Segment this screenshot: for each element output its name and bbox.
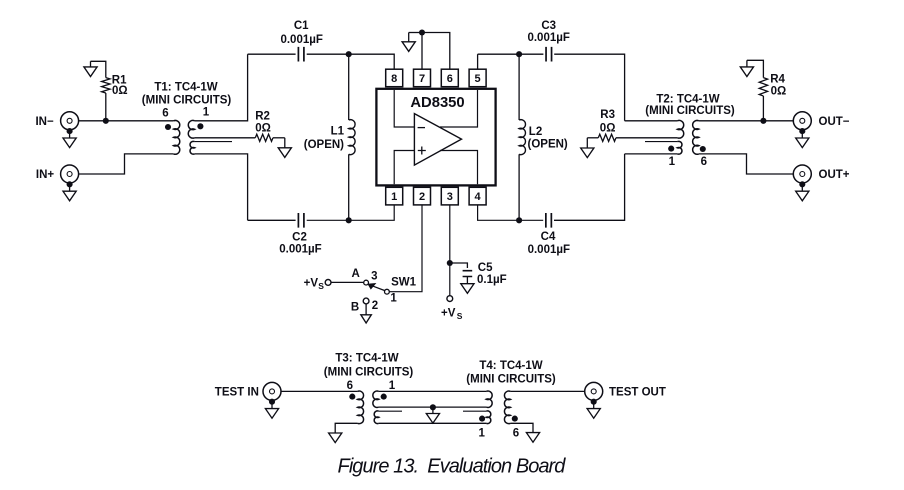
node IN+ input connector xyxy=(61,165,79,183)
node junction pin7/pin6 xyxy=(419,29,425,35)
svg-text:B: B xyxy=(351,301,359,313)
svg-text:1: 1 xyxy=(390,292,397,304)
wire +Vs to SW1 contact 3 xyxy=(331,281,364,283)
wire T3 tap2 stub xyxy=(379,410,402,412)
resistor R1 0ohm xyxy=(105,93,107,121)
svg-text:S: S xyxy=(318,281,324,291)
node OUT- connector xyxy=(793,112,811,130)
node +Vs switch terminal xyxy=(325,280,331,286)
transformer T4 secondary winding pin6 xyxy=(504,391,510,424)
node IN- input connector xyxy=(61,112,79,130)
svg-text:3: 3 xyxy=(447,191,453,203)
svg-text:(OPEN): (OPEN) xyxy=(528,139,568,151)
svg-text:6: 6 xyxy=(347,380,353,392)
switch SW1 pole 1 and arm xyxy=(385,289,390,294)
ground at R4 xyxy=(746,60,748,67)
resistor R2 0ohm xyxy=(255,134,273,141)
ground at R1 xyxy=(90,61,92,67)
node junction C4/L2 xyxy=(516,217,522,223)
ground at R2 xyxy=(284,138,286,148)
wire pin2 down to SW1 xyxy=(389,205,422,292)
switch SW1 contact 2 (B) xyxy=(363,298,369,304)
resistor R3 0ohm xyxy=(598,134,616,141)
svg-text:+V: +V xyxy=(304,277,319,289)
wire T4 tap2 stub xyxy=(463,410,486,412)
svg-text:T1: TC4-1W: T1: TC4-1W xyxy=(154,82,217,94)
capacitor C4 0.001uF xyxy=(478,205,544,220)
op-amp U1 internal triangle xyxy=(414,114,461,166)
svg-text:4: 4 xyxy=(475,191,482,203)
node TEST IN connector xyxy=(263,382,281,400)
wire T3 pin6 bottom to ground xyxy=(335,423,357,433)
svg-text:L2: L2 xyxy=(529,126,542,138)
svg-text:(MINI CIRCUITS): (MINI CIRCUITS) xyxy=(324,367,414,379)
pin 3 box xyxy=(441,187,458,205)
transformer T3 primary winding pin6 xyxy=(358,391,364,424)
wire T1 sec bottom to C2 xyxy=(195,154,248,220)
pin 2 box xyxy=(414,187,431,205)
ground at SW1 B xyxy=(365,304,367,315)
svg-text:S: S xyxy=(457,311,463,321)
ground at C5 xyxy=(461,284,474,294)
node +Vs supply terminal xyxy=(447,296,453,302)
node junction C3/L2 xyxy=(516,51,522,57)
svg-text:6: 6 xyxy=(701,156,707,168)
wire T3/T4 center tap link xyxy=(379,406,487,408)
svg-text:5: 5 xyxy=(475,73,481,85)
svg-text:+V: +V xyxy=(441,308,456,320)
wire T1 sec tap to R2 xyxy=(195,137,256,139)
op-amp output lower to pin4 xyxy=(440,151,478,185)
node junction pin3/C5 xyxy=(447,260,453,266)
wire IN+ to T1 pin6 bottom xyxy=(78,154,173,174)
svg-text:R2: R2 xyxy=(255,110,270,122)
wire pin7 up to ground net xyxy=(421,33,423,70)
svg-text:0.001µF: 0.001µF xyxy=(527,32,569,44)
svg-text:0.1µF: 0.1µF xyxy=(477,274,507,286)
transformer T2 secondary winding pin6 xyxy=(693,120,699,154)
capacitor C3 0.001uF xyxy=(478,53,544,55)
svg-text:1: 1 xyxy=(669,156,676,168)
pin 5 box xyxy=(469,69,486,87)
pin 1 box xyxy=(386,187,403,205)
svg-text:Figure 13. Evaluation Board: Figure 13. Evaluation Board xyxy=(338,455,567,477)
pin 7 box xyxy=(414,69,431,87)
svg-text:R4: R4 xyxy=(770,73,785,85)
inductor L2 (OPEN) xyxy=(518,54,520,120)
svg-text:IN−: IN− xyxy=(35,116,54,128)
op-amp minus input xyxy=(394,90,414,127)
svg-text:0Ω: 0Ω xyxy=(255,123,271,135)
wire T2 tap to R3 xyxy=(616,137,677,139)
resistor R4 0ohm xyxy=(762,96,764,121)
svg-text:C1: C1 xyxy=(294,20,309,32)
svg-text:(MINI CIRCUITS): (MINI CIRCUITS) xyxy=(645,105,735,117)
op-amp U1 AD8350 body xyxy=(376,89,495,186)
svg-text:C5: C5 xyxy=(478,262,493,274)
svg-text:3: 3 xyxy=(371,271,377,283)
inductor L1 (OPEN) xyxy=(348,54,350,120)
svg-text:2: 2 xyxy=(372,300,378,312)
svg-text:OUT−: OUT− xyxy=(819,116,850,128)
svg-text:1: 1 xyxy=(391,191,397,203)
transformer T4 primary winding pin1 xyxy=(486,391,492,407)
wire IN- to T1 pin6 top xyxy=(78,120,173,122)
wire C3 corner to T2 pin1 top xyxy=(625,120,678,122)
wire T2 pin6 top to OUT- xyxy=(699,120,794,122)
svg-text:0Ω: 0Ω xyxy=(600,123,616,135)
svg-text:C3: C3 xyxy=(541,20,556,32)
wire T3/T4 top link xyxy=(379,390,487,392)
svg-text:SW1: SW1 xyxy=(391,276,417,288)
wire TEST IN to T3 pin6 xyxy=(281,390,358,392)
node junction center tap ground xyxy=(430,404,436,410)
svg-text:0Ω: 0Ω xyxy=(112,85,128,97)
node junction IN-/R1 xyxy=(103,118,109,124)
transformer T2 primary winding pin1 xyxy=(677,120,683,138)
wire T2 tap2 stub xyxy=(645,141,677,143)
svg-text:2: 2 xyxy=(419,191,425,203)
ground at R3 xyxy=(586,138,588,148)
wire pin6 up to ground net xyxy=(422,33,450,70)
svg-text:T3: TC4-1W: T3: TC4-1W xyxy=(335,353,398,365)
transformer T1 primary winding pin6 xyxy=(174,120,180,154)
transformer T3 secondary winding pin1 xyxy=(373,391,379,407)
svg-text:0Ω: 0Ω xyxy=(771,85,787,97)
svg-text:6: 6 xyxy=(162,108,168,120)
svg-text:(OPEN): (OPEN) xyxy=(304,139,344,151)
svg-text:0.001µF: 0.001µF xyxy=(280,34,322,46)
node TEST OUT connector xyxy=(585,382,603,400)
wire T4 pin6 top to TEST OUT xyxy=(510,390,585,392)
svg-text:R3: R3 xyxy=(600,109,615,121)
transformer T1 secondary winding pin1 xyxy=(188,120,194,138)
pin 8 box xyxy=(386,69,403,87)
svg-text:1: 1 xyxy=(389,380,396,392)
ground at T3 pin6 xyxy=(329,433,342,443)
wire T4 pin6 bottom to ground xyxy=(510,423,533,432)
wire pin5 up to C3 rail xyxy=(477,54,479,69)
svg-text:(MINI CIRCUITS): (MINI CIRCUITS) xyxy=(466,374,556,386)
capacitor C2 0.001uF xyxy=(248,219,296,221)
op-amp plus input xyxy=(394,151,414,185)
wire T1 sec top to C1 xyxy=(195,54,248,121)
wire T1 sec tap2 stub xyxy=(195,141,232,143)
wire pin3 down to +Vs xyxy=(449,205,451,296)
svg-text:T4: TC4-1W: T4: TC4-1W xyxy=(479,360,542,372)
ground at T4 pin6 xyxy=(526,433,539,443)
svg-text:IN+: IN+ xyxy=(36,169,55,181)
node junction C1/L1 xyxy=(346,51,352,57)
node OUT+ connector xyxy=(793,165,811,183)
svg-text:6: 6 xyxy=(447,73,453,85)
svg-text:T2: TC4-1W: T2: TC4-1W xyxy=(656,94,719,106)
wire T2 pin6 bottom to OUT+ xyxy=(699,154,794,174)
svg-text:L1: L1 xyxy=(331,125,345,137)
capacitor C1 0.001uF xyxy=(248,53,296,55)
pin 6 box xyxy=(441,69,458,87)
capacitor C5 0.1uF xyxy=(450,263,468,268)
svg-text:0.001µF: 0.001µF xyxy=(279,243,321,255)
svg-text:8: 8 xyxy=(391,73,397,85)
svg-text:TEST IN: TEST IN xyxy=(215,387,259,399)
node junction C2/L1 xyxy=(346,217,352,223)
wire T2 pin1 bottom to C4 xyxy=(625,153,678,155)
svg-text:OUT+: OUT+ xyxy=(819,169,850,181)
ground at pin7 xyxy=(409,32,422,34)
svg-text:1: 1 xyxy=(478,428,485,440)
node junction R4/OUT- xyxy=(760,118,766,124)
svg-text:6: 6 xyxy=(513,428,519,440)
svg-text:C4: C4 xyxy=(541,231,556,243)
svg-text:(MINI CIRCUITS): (MINI CIRCUITS) xyxy=(142,95,232,107)
svg-text:1: 1 xyxy=(203,107,210,119)
svg-text:C2: C2 xyxy=(292,232,307,244)
wire T3/T4 bottom link xyxy=(379,422,487,424)
switch SW1 contact 3 (A) xyxy=(364,280,369,285)
pin 4 box xyxy=(469,187,486,205)
svg-text:TEST OUT: TEST OUT xyxy=(609,386,666,398)
ground at center tap xyxy=(432,407,434,413)
op-amp output upper to pin5 xyxy=(440,90,478,127)
svg-text:A: A xyxy=(352,268,360,280)
svg-text:7: 7 xyxy=(419,73,425,85)
svg-text:AD8350: AD8350 xyxy=(410,95,464,111)
svg-text:0.001µF: 0.001µF xyxy=(528,244,570,256)
